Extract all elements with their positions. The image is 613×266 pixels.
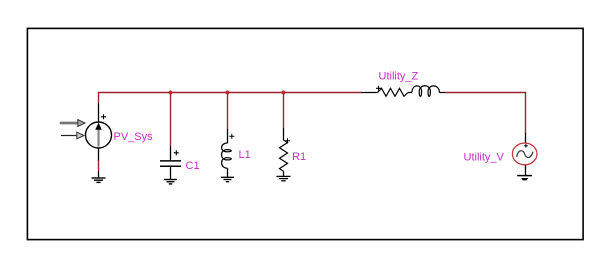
AC source Utility_V	[512, 133, 537, 175]
svg-text:C1: C1	[186, 160, 200, 172]
input arrow (bottom)	[61, 132, 84, 139]
input arrow (top, thick gray)	[61, 120, 85, 127]
node junction L1	[226, 91, 230, 95]
node junction C1	[169, 91, 173, 95]
ground (L1)	[221, 177, 234, 181]
wire: PV top vertical	[98, 92, 100, 103]
schematic border frame	[27, 28, 583, 239]
inductor L1	[222, 129, 235, 177]
wire: C1 drop	[170, 93, 172, 147]
wire: top rail left (PV to Utility_Z)	[99, 92, 362, 94]
current source PV_Sys	[86, 103, 112, 178]
ground (C1)	[164, 180, 177, 184]
ground (R1)	[277, 176, 291, 180]
svg-text:Utility_V: Utility_V	[464, 152, 505, 164]
svg-text:R1: R1	[292, 151, 306, 163]
wire: PV bottom segment	[98, 161, 100, 172]
svg-text:PV_Sys: PV_Sys	[114, 131, 154, 143]
wire: R1 drop	[283, 93, 285, 129]
ground (Utility_V, solid wedge)	[517, 176, 532, 181]
wire: L1 drop	[227, 93, 229, 130]
impedance Utility_Z (R + L series)	[361, 86, 445, 97]
wire: top rail right (Utility_Z to Utility_V corner)	[445, 93, 526, 134]
resistor R1	[280, 128, 291, 176]
node junction R1	[282, 91, 286, 95]
capacitor C1	[160, 146, 181, 179]
ground (PV_Sys)	[92, 178, 106, 182]
svg-text:L1: L1	[239, 149, 251, 161]
svg-text:Utility_Z: Utility_Z	[379, 71, 419, 83]
